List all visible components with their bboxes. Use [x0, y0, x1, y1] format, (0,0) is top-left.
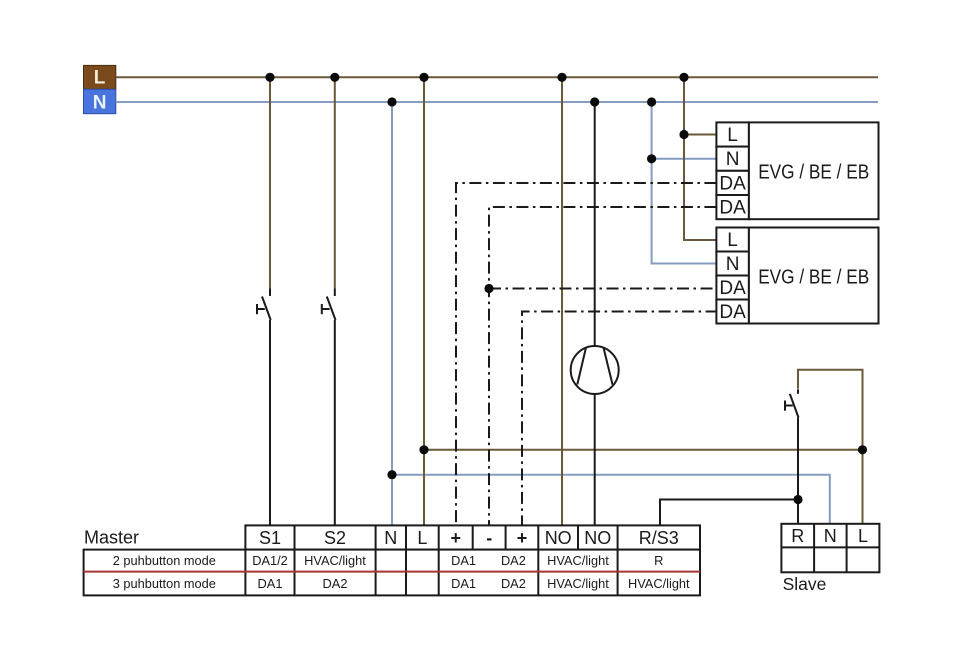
svg-text:HVAC/light: HVAC/light — [547, 576, 609, 591]
svg-text:N: N — [93, 92, 107, 113]
svg-text:HVAC/light: HVAC/light — [628, 576, 690, 591]
wire N drop (blue) — [391, 102, 393, 525]
wire DA2b bus (dash-dot) — [522, 312, 718, 526]
svg-text:N: N — [726, 149, 740, 170]
svg-text:+: + — [517, 528, 528, 548]
wire R/S3 link (black) — [660, 500, 798, 526]
svg-text:NO: NO — [545, 528, 572, 548]
svg-text:HVAC/light: HVAC/light — [547, 553, 609, 568]
wire slave loop (brown) — [798, 370, 863, 524]
fan M — [571, 346, 619, 394]
junction dot EVG1 N — [647, 154, 656, 163]
svg-text:DA1/2: DA1/2 — [252, 553, 288, 568]
wire L bus (brown horizontal) — [116, 76, 878, 78]
EVG2 terminals — [716, 228, 749, 324]
wire fan to NO2 (black) — [594, 394, 596, 525]
svg-text:N: N — [824, 526, 837, 546]
svg-text:EVG / BE / EB: EVG / BE / EB — [758, 266, 869, 288]
wire EVG1 L stub (brown) — [684, 134, 716, 136]
svg-text:DA: DA — [719, 278, 746, 299]
svg-text:-: - — [486, 528, 492, 548]
master header labels — [259, 528, 679, 548]
wire S2 to terminal (black) — [334, 320, 336, 525]
master terminal header row — [245, 525, 700, 549]
junction dot DA2 branch — [484, 284, 493, 293]
master mode rows box — [84, 550, 700, 596]
slave labels — [791, 526, 868, 546]
svg-text:Slave: Slave — [783, 574, 827, 594]
svg-text:L: L — [858, 526, 868, 546]
svg-text:L: L — [94, 68, 106, 89]
svg-text:NO: NO — [584, 528, 611, 548]
svg-text:HVAC/light: HVAC/light — [304, 553, 366, 568]
node N (supply box N) — [84, 89, 116, 113]
slave terminal box — [781, 524, 879, 573]
svg-text:DA2: DA2 — [501, 553, 526, 568]
svg-text:DA: DA — [719, 198, 746, 219]
svg-text:+: + — [450, 528, 461, 548]
svg-text:Master: Master — [84, 528, 139, 548]
svg-text:DA: DA — [719, 173, 746, 194]
wire L drop (brown) — [423, 77, 425, 525]
device EVG2 box — [749, 228, 879, 324]
svg-text:L: L — [727, 230, 738, 251]
svg-text:L: L — [727, 125, 738, 146]
svg-text:R: R — [791, 526, 804, 546]
svg-text:S2: S2 — [324, 528, 346, 548]
wire S1 to terminal (black) — [269, 320, 271, 525]
svg-text:DA2: DA2 — [323, 576, 348, 591]
svg-text:2 puhbutton mode: 2 puhbutton mode — [113, 553, 216, 568]
wire S3 to R (black) — [797, 418, 799, 524]
svg-text:S1: S1 — [259, 528, 281, 548]
red separator — [84, 571, 700, 573]
device EVG1 box — [749, 122, 879, 219]
wire S2 drop (brown) — [334, 77, 336, 288]
mode row 2 labels — [113, 576, 690, 591]
svg-text:EVG / BE / EB: EVG / BE / EB — [758, 162, 869, 184]
junction dots L bus — [265, 73, 688, 82]
junction dot EVG1 L — [679, 130, 688, 139]
svg-text:R/S3: R/S3 — [639, 528, 679, 548]
wire DA1 bus (dash-dot) — [456, 183, 716, 525]
svg-text:DA: DA — [719, 302, 746, 323]
wire NO1 drop (brown) — [561, 77, 563, 525]
svg-text:DA1: DA1 — [451, 553, 476, 568]
wire EVG L feeder (brown) — [684, 77, 718, 240]
svg-text:3 puhbutton mode: 3 puhbutton mode — [113, 576, 216, 591]
wire L branch to slave (brown) — [424, 449, 863, 451]
junction dot N branch start — [387, 470, 396, 479]
wire DA2 bus (dash-dot) — [489, 207, 718, 525]
pushbutton S3 (slave) — [785, 389, 799, 417]
svg-text:N: N — [384, 528, 397, 548]
svg-text:N: N — [726, 254, 740, 275]
wire S1 drop (brown) — [269, 77, 271, 288]
mode row 1 labels — [113, 553, 664, 568]
svg-text:DA1: DA1 — [258, 576, 283, 591]
junction dot R link — [793, 495, 802, 504]
EVG1 terminals — [716, 122, 749, 219]
junction dot L branch end — [858, 445, 867, 454]
wire EVG1 N stub (blue) — [652, 158, 717, 160]
junction dot L branch start — [419, 445, 428, 454]
svg-text:L: L — [417, 528, 427, 548]
svg-text:DA2: DA2 — [501, 576, 526, 591]
node L (supply box L) — [84, 65, 116, 89]
svg-text:DA1: DA1 — [451, 576, 476, 591]
junction dots N bus — [387, 97, 656, 106]
wire fan drop (black) — [594, 102, 596, 346]
pushbutton S2 — [322, 289, 336, 321]
pushbutton S1 — [257, 289, 271, 321]
wire EVG N feeder (blue) — [652, 102, 718, 264]
wire N bus (blue horizontal) — [116, 101, 878, 103]
svg-text:R: R — [654, 553, 663, 568]
wire N branch to slave (blue) — [392, 475, 830, 524]
